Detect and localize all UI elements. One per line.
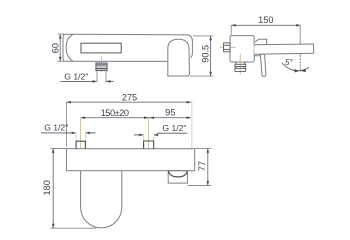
spout nose inner arc	[66, 35, 73, 62]
dim 150 extension right / 5deg reference (solid then dashed)	[299, 25, 301, 55]
svg-text:60: 60	[51, 43, 61, 53]
mixer body (side)	[230, 36, 254, 62]
dim 150 extension left	[230, 25, 232, 35]
dim 77 line	[207, 149, 209, 186]
svg-text:95: 95	[165, 107, 175, 117]
dim 150±20 line	[81, 117, 149, 119]
svg-text:150: 150	[258, 15, 273, 25]
dim 90.5 extension lines	[190, 36, 213, 76]
dim 90.5 arrows	[209, 36, 212, 76]
handle base (side)	[255, 39, 267, 44]
dim 180 extension lines	[50, 149, 96, 229]
spout capsule body	[63, 34, 192, 61]
svg-text:G 1/2": G 1/2"	[162, 123, 186, 133]
hex nut	[224, 43, 230, 52]
svg-text:180: 180	[42, 180, 52, 195]
left inlet center line	[80, 118, 82, 155]
lever neck line	[254, 55, 260, 57]
spout (side)	[254, 44, 314, 54]
handle square (plan)	[168, 171, 187, 183]
right inlet fitting	[144, 141, 154, 149]
wall bar (plan)	[67, 149, 195, 171]
cyan projection line	[191, 100, 193, 173]
lever blade	[260, 54, 266, 76]
svg-text:77: 77	[197, 161, 207, 171]
body bottom threaded fitting	[235, 62, 246, 71]
dim 150 line	[231, 24, 300, 26]
fitting extension lines down	[97, 71, 106, 82]
dim 275 line	[67, 101, 191, 103]
dim 90.5 line	[210, 36, 212, 76]
5 deg arc with arrows	[282, 63, 309, 71]
dim 77 extension lines	[188, 148, 212, 185]
svg-text:5°: 5°	[285, 58, 293, 67]
svg-text:150±20: 150±20	[101, 108, 129, 118]
dim 95 line	[149, 117, 191, 119]
left inlet fitting	[76, 141, 85, 149]
green extension ticks left fitting	[76, 134, 154, 141]
hex nut center line	[220, 46, 236, 48]
dim 60 arrows	[59, 34, 62, 61]
svg-text:G 1/2": G 1/2"	[44, 123, 68, 133]
dim 60 extension lines	[58, 34, 65, 61]
svg-text:90.5: 90.5	[200, 45, 210, 63]
spout U (plan)	[81, 171, 122, 228]
svg-text:275: 275	[122, 93, 137, 103]
G 1/2 threaded stub (front view)	[96, 63, 107, 71]
dim 275 left extension	[66, 102, 68, 147]
G 1/2 fitting center line (front view)	[101, 56, 103, 73]
handle (front)	[168, 39, 190, 76]
right inlet center line	[148, 118, 150, 155]
dim 180 line	[52, 149, 54, 229]
body bottom fitting center line	[239, 54, 241, 75]
handle arc (plan)	[168, 171, 187, 177]
dim 60 line	[59, 34, 61, 61]
svg-text:G 1/2": G 1/2"	[64, 71, 88, 81]
slot opening	[81, 43, 121, 53]
